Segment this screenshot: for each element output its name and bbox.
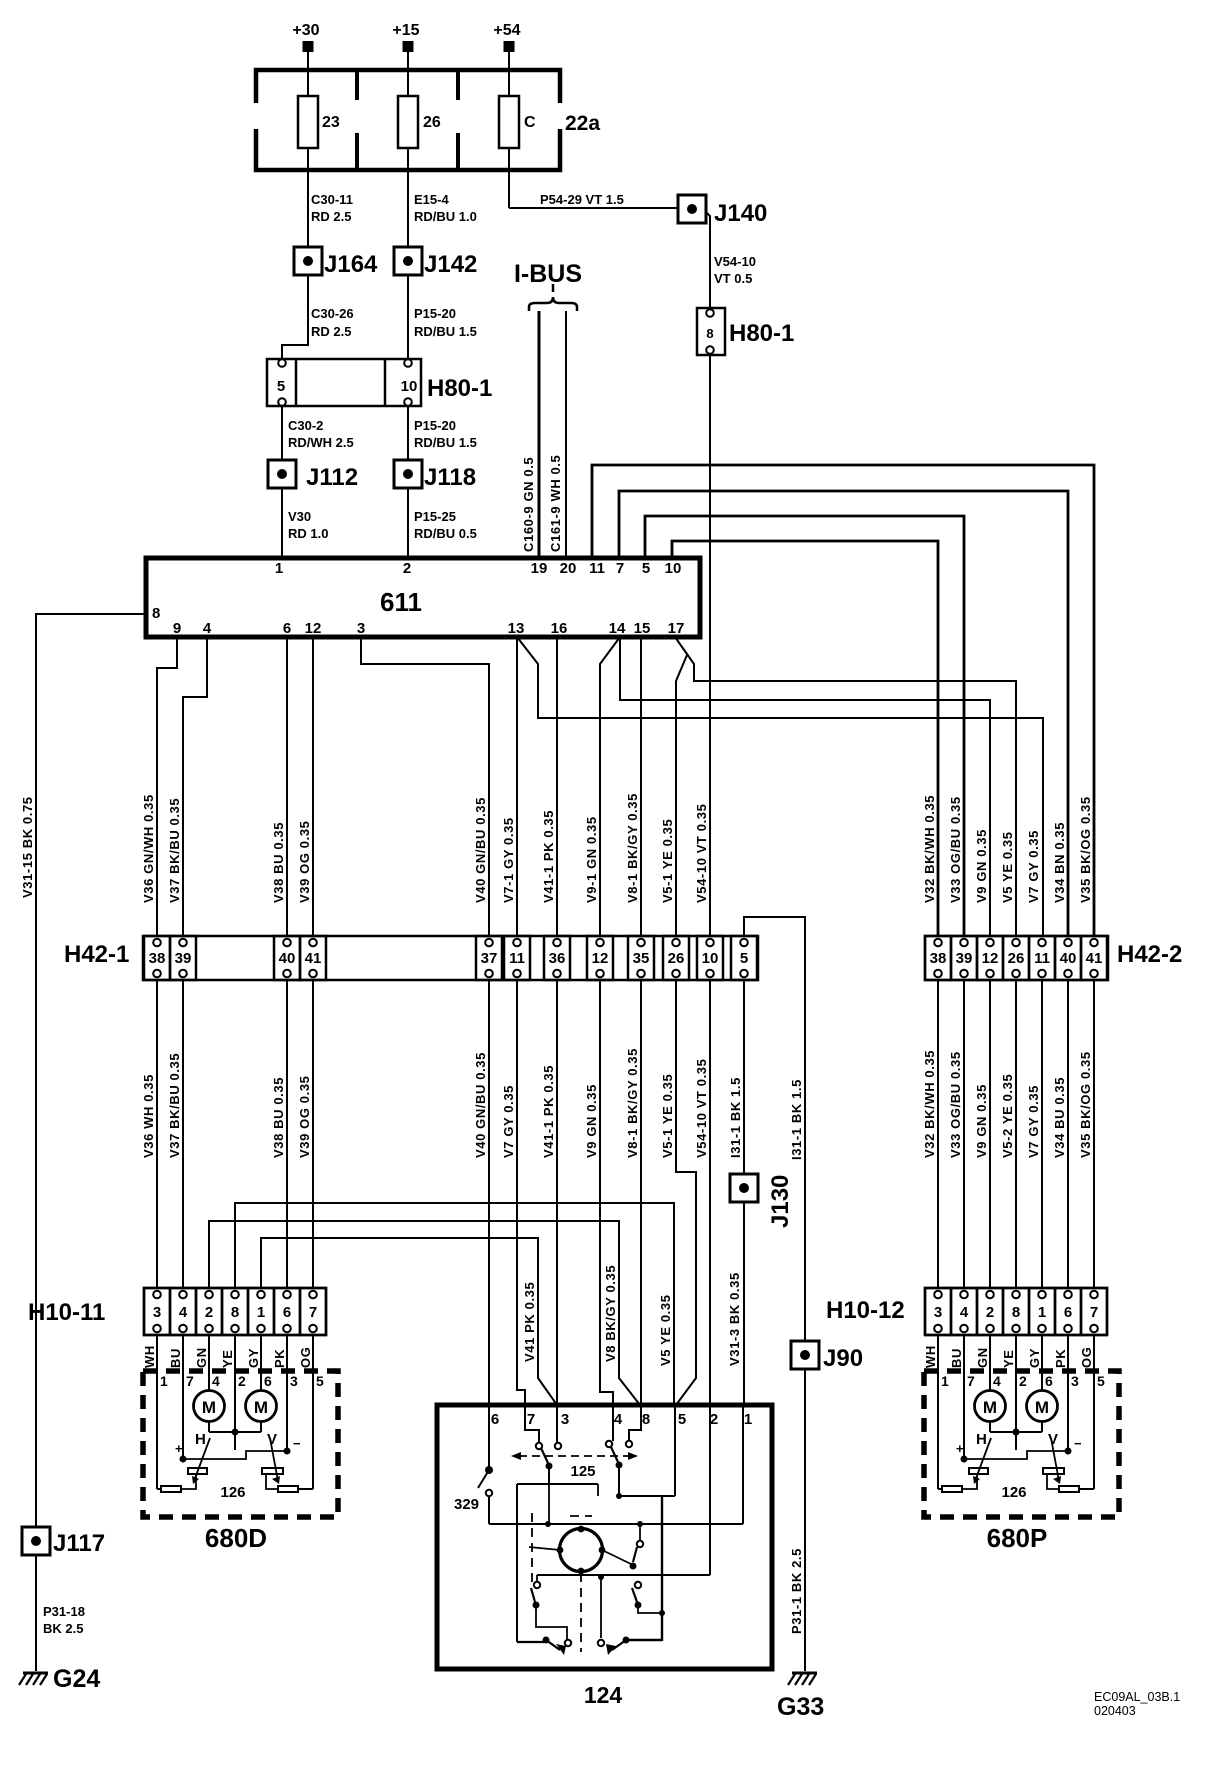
svg-text:8: 8 — [706, 326, 713, 341]
svg-text:V8 BK/GY 0.35: V8 BK/GY 0.35 — [603, 1265, 618, 1362]
svg-text:23: 23 — [322, 114, 340, 131]
svg-text:V41-1 PK 0.35: V41-1 PK 0.35 — [541, 810, 556, 903]
svg-text:H10-12: H10-12 — [826, 1297, 905, 1324]
svg-text:1: 1 — [257, 1304, 265, 1321]
svg-text:35: 35 — [633, 950, 650, 967]
svg-text:RD/WH 2.5: RD/WH 2.5 — [288, 435, 354, 450]
svg-text:124: 124 — [584, 1682, 623, 1708]
svg-text:020403: 020403 — [1094, 1704, 1136, 1718]
svg-text:V9 GN 0.35: V9 GN 0.35 — [974, 1084, 989, 1158]
svg-text:C30-26: C30-26 — [311, 306, 354, 321]
svg-text:7: 7 — [527, 1411, 535, 1428]
svg-text:37: 37 — [481, 950, 498, 967]
svg-text:6: 6 — [264, 1373, 272, 1389]
svg-text:40: 40 — [279, 950, 296, 967]
svg-text:6: 6 — [1045, 1373, 1053, 1389]
svg-text:2: 2 — [238, 1373, 246, 1389]
svg-text:V7 GY 0.35: V7 GY 0.35 — [1026, 1085, 1041, 1158]
svg-text:C160-9 GN 0.5: C160-9 GN 0.5 — [521, 457, 536, 552]
svg-text:3: 3 — [357, 620, 365, 637]
svg-text:4: 4 — [993, 1373, 1001, 1389]
svg-text:P54-29 VT 1.5: P54-29 VT 1.5 — [540, 192, 624, 207]
svg-text:1: 1 — [160, 1373, 168, 1389]
svg-text:41: 41 — [1086, 950, 1103, 967]
svg-text:GY: GY — [246, 1348, 261, 1368]
svg-text:+: + — [175, 1441, 183, 1456]
svg-text:12: 12 — [305, 620, 322, 637]
svg-text:10: 10 — [665, 560, 682, 577]
svg-text:680D: 680D — [205, 1523, 267, 1553]
svg-text:7: 7 — [309, 1304, 317, 1321]
svg-text:M: M — [983, 1398, 997, 1417]
svg-text:H10-11: H10-11 — [28, 1299, 105, 1326]
svg-text:PK: PK — [272, 1349, 287, 1368]
svg-text:V9 GN 0.35: V9 GN 0.35 — [974, 829, 989, 903]
svg-text:−: − — [1074, 1436, 1082, 1451]
svg-text:H80-1: H80-1 — [427, 375, 492, 402]
svg-text:126: 126 — [220, 1484, 245, 1501]
svg-text:13: 13 — [508, 620, 525, 637]
svg-text:329: 329 — [454, 1496, 479, 1513]
svg-text:10: 10 — [702, 950, 719, 967]
svg-text:G33: G33 — [777, 1693, 824, 1721]
svg-text:V36 WH 0.35: V36 WH 0.35 — [141, 1074, 156, 1158]
svg-text:22a: 22a — [565, 112, 600, 135]
svg-text:GN: GN — [194, 1347, 209, 1368]
svg-text:J140: J140 — [714, 200, 767, 227]
svg-text:P15-25: P15-25 — [414, 509, 456, 524]
svg-text:5: 5 — [642, 560, 650, 577]
svg-text:V54-10: V54-10 — [714, 254, 756, 269]
svg-text:V8-1 BK/GY 0.35: V8-1 BK/GY 0.35 — [625, 793, 640, 903]
svg-text:J117: J117 — [53, 1530, 105, 1557]
svg-text:V39 OG 0.35: V39 OG 0.35 — [297, 1076, 312, 1158]
svg-text:RD/BU 1.5: RD/BU 1.5 — [414, 324, 477, 339]
svg-text:6: 6 — [283, 1304, 291, 1321]
svg-text:J90: J90 — [823, 1345, 863, 1372]
svg-text:12: 12 — [982, 950, 999, 967]
svg-text:V41 PK 0.35: V41 PK 0.35 — [522, 1282, 537, 1362]
svg-text:5: 5 — [1097, 1373, 1105, 1389]
svg-text:J130: J130 — [767, 1175, 794, 1228]
svg-text:V7 GY 0.35: V7 GY 0.35 — [501, 1085, 516, 1158]
svg-text:39: 39 — [956, 950, 973, 967]
svg-text:V36 GN/WH 0.35: V36 GN/WH 0.35 — [141, 794, 156, 903]
svg-text:V31-3 BK 0.35: V31-3 BK 0.35 — [727, 1272, 742, 1366]
svg-text:VT 0.5: VT 0.5 — [714, 271, 752, 286]
svg-text:RD/BU 0.5: RD/BU 0.5 — [414, 526, 477, 541]
svg-text:26: 26 — [1008, 950, 1025, 967]
svg-text:E15-4: E15-4 — [414, 192, 449, 207]
svg-text:V35 BK/OG 0.35: V35 BK/OG 0.35 — [1078, 796, 1093, 903]
svg-text:P15-20: P15-20 — [414, 306, 456, 321]
svg-text:V5 YE 0.35: V5 YE 0.35 — [658, 1294, 673, 1366]
svg-text:PK: PK — [1053, 1349, 1068, 1368]
svg-text:P31-1 BK 2.5: P31-1 BK 2.5 — [789, 1548, 804, 1634]
svg-text:5: 5 — [740, 950, 748, 967]
svg-text:39: 39 — [175, 950, 192, 967]
svg-text:BK 2.5: BK 2.5 — [43, 1621, 83, 1636]
svg-text:2: 2 — [205, 1304, 213, 1321]
svg-text:V5-1 YE 0.35: V5-1 YE 0.35 — [660, 819, 675, 903]
svg-text:V35 BK/OG 0.35: V35 BK/OG 0.35 — [1078, 1051, 1093, 1158]
svg-text:5: 5 — [678, 1411, 686, 1428]
svg-text:−: − — [293, 1436, 301, 1451]
svg-text:7: 7 — [186, 1373, 194, 1389]
svg-text:+15: +15 — [392, 22, 419, 39]
svg-text:I31-1 BK 1.5: I31-1 BK 1.5 — [728, 1077, 743, 1158]
svg-text:V34 BU 0.35: V34 BU 0.35 — [1052, 1077, 1067, 1158]
svg-text:4: 4 — [203, 620, 212, 637]
svg-text:M: M — [202, 1398, 216, 1417]
svg-text:C: C — [524, 114, 536, 131]
svg-text:8: 8 — [152, 605, 160, 622]
svg-text:I31-1 BK 1.5: I31-1 BK 1.5 — [789, 1079, 804, 1160]
svg-text:YE: YE — [220, 1349, 235, 1368]
svg-text:RD 2.5: RD 2.5 — [311, 209, 351, 224]
svg-text:YE: YE — [1001, 1349, 1016, 1368]
svg-text:7: 7 — [616, 560, 624, 577]
svg-text:5: 5 — [316, 1373, 324, 1389]
svg-text:10: 10 — [401, 378, 418, 395]
svg-text:H42-1: H42-1 — [64, 941, 129, 968]
svg-text:2: 2 — [986, 1304, 994, 1321]
svg-text:J164: J164 — [324, 251, 378, 278]
svg-text:5: 5 — [277, 378, 285, 395]
svg-text:WH: WH — [923, 1345, 938, 1368]
svg-text:V5 YE 0.35: V5 YE 0.35 — [1000, 831, 1015, 903]
svg-text:V30: V30 — [288, 509, 311, 524]
svg-text:H42-2: H42-2 — [1117, 941, 1182, 968]
svg-text:RD/BU 1.5: RD/BU 1.5 — [414, 435, 477, 450]
svg-text:8: 8 — [642, 1411, 650, 1428]
svg-text:V54-10 VT 0.35: V54-10 VT 0.35 — [694, 1059, 709, 1158]
svg-text:26: 26 — [423, 114, 441, 131]
svg-text:I-BUS: I-BUS — [514, 260, 582, 288]
svg-text:G24: G24 — [53, 1665, 100, 1693]
svg-text:M: M — [254, 1398, 268, 1417]
svg-text:4: 4 — [212, 1373, 220, 1389]
svg-text:C161-9 WH 0.5: C161-9 WH 0.5 — [548, 455, 563, 552]
svg-text:26: 26 — [668, 950, 685, 967]
svg-text:20: 20 — [560, 560, 577, 577]
svg-text:V38 BU 0.35: V38 BU 0.35 — [271, 1077, 286, 1158]
svg-text:3: 3 — [290, 1373, 298, 1389]
svg-text:V9-1 GN 0.35: V9-1 GN 0.35 — [584, 816, 599, 903]
svg-text:H: H — [976, 1431, 987, 1448]
svg-text:RD 2.5: RD 2.5 — [311, 324, 351, 339]
svg-text:V41-1 PK 0.35: V41-1 PK 0.35 — [541, 1065, 556, 1158]
svg-text:V33 OG/BU 0.35: V33 OG/BU 0.35 — [948, 796, 963, 903]
svg-text:+54: +54 — [493, 22, 520, 39]
svg-text:6: 6 — [283, 620, 291, 637]
svg-text:6: 6 — [491, 1411, 499, 1428]
svg-text:36: 36 — [549, 950, 566, 967]
svg-text:+30: +30 — [292, 22, 319, 39]
svg-text:V37 BK/BU 0.35: V37 BK/BU 0.35 — [167, 1053, 182, 1158]
svg-text:3: 3 — [153, 1304, 161, 1321]
svg-text:6: 6 — [1064, 1304, 1072, 1321]
svg-text:V7 GY 0.35: V7 GY 0.35 — [1026, 830, 1041, 903]
svg-text:V40 GN/BU 0.35: V40 GN/BU 0.35 — [473, 1052, 488, 1158]
svg-text:11: 11 — [509, 950, 525, 967]
svg-text:1: 1 — [1038, 1304, 1046, 1321]
svg-text:1: 1 — [275, 560, 283, 577]
svg-text:11: 11 — [589, 560, 605, 577]
svg-text:V54-10 VT 0.35: V54-10 VT 0.35 — [694, 804, 709, 903]
svg-text:8: 8 — [231, 1304, 239, 1321]
svg-text:17: 17 — [668, 620, 685, 637]
svg-text:V34 BN 0.35: V34 BN 0.35 — [1052, 822, 1067, 903]
svg-text:C30-11: C30-11 — [311, 192, 353, 207]
svg-text:9: 9 — [173, 620, 181, 637]
svg-text:2: 2 — [403, 560, 411, 577]
svg-text:1: 1 — [744, 1411, 752, 1428]
svg-text:J118: J118 — [424, 464, 476, 491]
svg-text:OG: OG — [298, 1347, 313, 1368]
svg-text:14: 14 — [609, 620, 626, 637]
svg-text:19: 19 — [531, 560, 548, 577]
svg-text:WH: WH — [142, 1345, 157, 1368]
svg-text:V40 GN/BU 0.35: V40 GN/BU 0.35 — [473, 797, 488, 903]
svg-text:V5-1 YE 0.35: V5-1 YE 0.35 — [660, 1074, 675, 1158]
svg-text:V9 GN 0.35: V9 GN 0.35 — [584, 1084, 599, 1158]
svg-text:BU: BU — [949, 1348, 964, 1368]
svg-text:611: 611 — [380, 587, 422, 617]
svg-text:8: 8 — [1012, 1304, 1020, 1321]
svg-text:GN: GN — [975, 1347, 990, 1368]
svg-text:J112: J112 — [306, 464, 358, 491]
svg-text:RD 1.0: RD 1.0 — [288, 526, 328, 541]
svg-text:11: 11 — [1034, 950, 1050, 967]
svg-text:7: 7 — [1090, 1304, 1098, 1321]
svg-text:125: 125 — [570, 1463, 595, 1480]
svg-text:126: 126 — [1001, 1484, 1026, 1501]
svg-text:4: 4 — [960, 1304, 969, 1321]
svg-text:12: 12 — [592, 950, 609, 967]
svg-text:40: 40 — [1060, 950, 1077, 967]
svg-text:V5-2 YE 0.35: V5-2 YE 0.35 — [1000, 1074, 1015, 1158]
svg-text:H: H — [195, 1431, 206, 1448]
svg-text:V7-1 GY 0.35: V7-1 GY 0.35 — [501, 817, 516, 903]
svg-text:1: 1 — [941, 1373, 949, 1389]
svg-text:4: 4 — [614, 1411, 623, 1428]
svg-text:C30-2: C30-2 — [288, 418, 323, 433]
svg-text:680P: 680P — [987, 1523, 1048, 1553]
svg-text:2: 2 — [710, 1411, 718, 1428]
svg-text:M: M — [1035, 1398, 1049, 1417]
svg-text:V32 BK/WH 0.35: V32 BK/WH 0.35 — [922, 1050, 937, 1158]
svg-text:3: 3 — [1071, 1373, 1079, 1389]
svg-text:H80-1: H80-1 — [729, 320, 794, 347]
svg-text:V33 OG/BU 0.35: V33 OG/BU 0.35 — [948, 1051, 963, 1158]
svg-text:J142: J142 — [424, 251, 477, 278]
svg-text:4: 4 — [179, 1304, 188, 1321]
svg-text:V8-1 BK/GY 0.35: V8-1 BK/GY 0.35 — [625, 1048, 640, 1158]
svg-text:P15-20: P15-20 — [414, 418, 456, 433]
svg-text:38: 38 — [149, 950, 166, 967]
svg-text:3: 3 — [561, 1411, 569, 1428]
svg-text:16: 16 — [551, 620, 568, 637]
svg-text:38: 38 — [930, 950, 947, 967]
svg-text:V31-15 BK 0.75: V31-15 BK 0.75 — [20, 796, 35, 898]
svg-text:GY: GY — [1027, 1348, 1042, 1368]
svg-text:V38 BU 0.35: V38 BU 0.35 — [271, 822, 286, 903]
svg-text:V39 OG 0.35: V39 OG 0.35 — [297, 821, 312, 903]
svg-text:BU: BU — [168, 1348, 183, 1368]
svg-text:3: 3 — [934, 1304, 942, 1321]
svg-text:+: + — [956, 1441, 964, 1456]
svg-text:15: 15 — [634, 620, 651, 637]
svg-text:41: 41 — [305, 950, 322, 967]
svg-text:V37 BK/BU 0.35: V37 BK/BU 0.35 — [167, 798, 182, 903]
svg-text:P31-18: P31-18 — [43, 1604, 85, 1619]
svg-text:V32 BK/WH 0.35: V32 BK/WH 0.35 — [922, 795, 937, 903]
svg-text:RD/BU 1.0: RD/BU 1.0 — [414, 209, 477, 224]
svg-text:7: 7 — [967, 1373, 975, 1389]
svg-text:2: 2 — [1019, 1373, 1027, 1389]
svg-text:OG: OG — [1079, 1347, 1094, 1368]
svg-text:EC09AL_03B.1: EC09AL_03B.1 — [1094, 1690, 1180, 1704]
